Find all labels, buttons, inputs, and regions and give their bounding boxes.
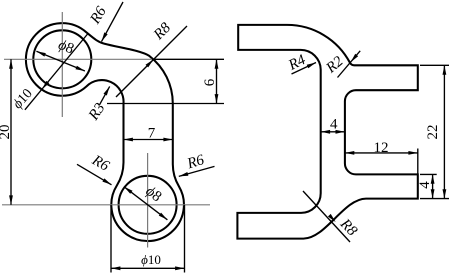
R6 bottom-left leader line bbox=[77, 164, 112, 185]
dim 6 line bbox=[216, 59, 218, 103]
svg-text:20: 20 bbox=[0, 125, 13, 140]
bottom boss horizontal centerline bbox=[2, 204, 210, 206]
arrow 7 right bbox=[163, 138, 172, 142]
dim 4 stem line bbox=[321, 131, 345, 133]
arrow 12 right bbox=[408, 151, 417, 155]
arrow 4 right bbox=[336, 130, 345, 134]
svg-text:12: 12 bbox=[374, 140, 389, 156]
R2 leader line bbox=[338, 51, 361, 78]
dim 7 line bbox=[124, 139, 173, 141]
dim 6 top extension line bbox=[152, 58, 224, 60]
arrow phi8 upper-left bbox=[36, 50, 46, 57]
dim 12 line bbox=[345, 152, 418, 154]
bottom boss hole circle phi8 bbox=[119, 176, 177, 234]
arrow R8 right view bbox=[328, 214, 337, 223]
svg-text:7: 7 bbox=[148, 126, 156, 142]
phi8 dimension line bbox=[36, 51, 85, 71]
dim 20 line bbox=[10, 59, 12, 205]
phi10 bottom extension lines bbox=[111, 205, 185, 273]
arrow 20 bottom bbox=[9, 195, 13, 204]
arrow phi8 bottom upper-left bbox=[123, 185, 133, 194]
dim 4 right top extension bbox=[420, 173, 437, 175]
arrow 20 top bbox=[9, 59, 13, 68]
top boss vertical centerline bbox=[61, 12, 63, 117]
R6 top leader line bbox=[102, 2, 124, 42]
phi10 bottom dimension line bbox=[111, 267, 185, 269]
arrow R6 bottom-right bbox=[178, 172, 188, 178]
arrow R2 bbox=[349, 54, 358, 64]
arrow R3 bbox=[103, 85, 111, 95]
top boss hole circle phi8 bbox=[33, 30, 91, 88]
R4 leader line bbox=[292, 63, 317, 75]
svg-text:22: 22 bbox=[425, 125, 441, 140]
arrow 12 left bbox=[345, 151, 354, 155]
arrow 22 bottom bbox=[443, 189, 447, 198]
top boss horizontal centerline bbox=[4, 58, 152, 60]
arrow 7 left bbox=[124, 138, 133, 142]
arrow 4 right bottom bbox=[431, 189, 435, 198]
svg-text:ϕ10: ϕ10 bbox=[141, 252, 161, 267]
R3 leader line bbox=[100, 86, 110, 104]
right view part outline bbox=[237, 25, 417, 239]
svg-text:4: 4 bbox=[330, 117, 338, 133]
arrow 4 left bbox=[321, 130, 330, 134]
arrow phi8 bottom lower-right bbox=[159, 213, 169, 222]
left view part outline bbox=[26, 23, 184, 241]
arrow phi10 bottom right bbox=[175, 266, 184, 270]
arrow phi10 bottom left bbox=[111, 266, 120, 270]
dim 6 bottom extension line bbox=[107, 103, 224, 105]
dim 22 top extension bbox=[420, 64, 449, 66]
R8 right-view leader line bbox=[303, 191, 350, 242]
arrow 6 top bbox=[215, 59, 219, 68]
arrow phi10 top bbox=[40, 81, 49, 91]
arrow R8 bbox=[146, 58, 155, 67]
arrow 4 right top bbox=[431, 174, 435, 183]
R6 bottom-right leader line bbox=[179, 166, 215, 176]
arrow 22 top bbox=[443, 65, 447, 74]
arrow R6 bottom-left bbox=[102, 178, 112, 186]
arrow 6 bottom bbox=[215, 94, 219, 103]
R8 leader line bbox=[116, 26, 187, 97]
arrow phi8 lower-right bbox=[75, 66, 85, 73]
dim 12 right extension bbox=[417, 149, 419, 175]
dim 22 / 4 bottom extension bbox=[420, 198, 449, 200]
phi8 bottom dimension line bbox=[124, 187, 167, 220]
svg-text:4: 4 bbox=[417, 181, 433, 189]
bottom boss vertical centerline bbox=[147, 153, 149, 248]
svg-text:6: 6 bbox=[202, 78, 218, 86]
dim 4 right line bbox=[432, 174, 434, 198]
arrow R4 bbox=[307, 61, 317, 68]
arrow R6 top bbox=[100, 32, 108, 42]
phi10 diagonal leader through top boss bbox=[25, 34, 88, 110]
dim 22 line bbox=[443, 65, 445, 198]
